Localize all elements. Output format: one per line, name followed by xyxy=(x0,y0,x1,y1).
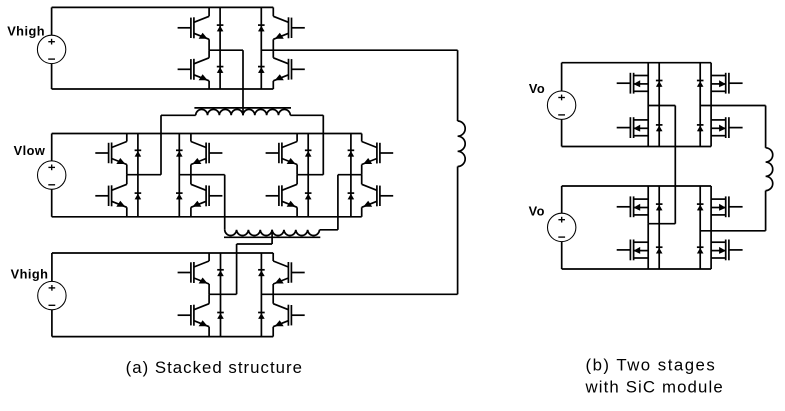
wire M6 leg lead xyxy=(647,224,649,269)
diode D19 xyxy=(697,81,704,87)
wire M1 drain lead xyxy=(647,63,649,106)
wire leg2 collector lead xyxy=(272,7,274,16)
diode D4 xyxy=(258,67,265,73)
diode D1 xyxy=(217,25,224,31)
wire leg4 collector lead xyxy=(190,134,192,142)
diode D3 xyxy=(258,25,265,31)
wire diode leg D1/D2 xyxy=(219,7,221,89)
wire T1 top right terminal xyxy=(290,115,323,174)
diode D6 xyxy=(135,193,142,199)
wire leg8 collector lead xyxy=(272,253,274,261)
wire diode leg D17/D18 xyxy=(658,63,660,147)
wire Q12 emitter to bottom rail xyxy=(361,207,363,217)
voltage source V2 Vlow xyxy=(38,161,66,189)
wire Q3 emitter to midpoint xyxy=(272,39,274,50)
wire Q1 emitter to midpoint xyxy=(208,39,210,50)
diode D9 xyxy=(305,150,312,156)
transformer T1 primary winding xyxy=(194,108,291,115)
transistor M4 xyxy=(711,117,743,138)
wire V5 bottom to bottom rail xyxy=(561,242,563,269)
wire cell2 midpoint C xyxy=(297,174,323,176)
diode D17 xyxy=(656,81,663,87)
wire inductor L1 bottom lead xyxy=(457,167,459,295)
transistor Q14 xyxy=(178,304,210,327)
wire Q2 emitter to bottom rail xyxy=(208,81,210,89)
wire leg3 collector lead xyxy=(126,134,128,142)
diode D11 xyxy=(348,150,355,156)
inductor L1 xyxy=(458,121,466,167)
transistor M6 xyxy=(617,240,649,261)
wire top rail cell4 xyxy=(562,62,712,64)
transistor Q5 xyxy=(95,142,127,165)
wire V4 top to top rail xyxy=(561,63,563,91)
diode D2 xyxy=(217,67,224,73)
wire cell2 midpoint B xyxy=(179,174,224,176)
wire bottom rail cell3 xyxy=(52,336,273,338)
wire diode leg D21/D22 xyxy=(658,186,660,269)
voltage source V5 Vo xyxy=(548,213,576,241)
svg-text:with SiC module: with SiC module xyxy=(585,377,724,396)
wire T1 bottom center tap xyxy=(237,230,273,294)
transistor M3 xyxy=(711,73,743,94)
transistor Q4 xyxy=(273,58,305,81)
wire Q16 emitter to bottom rail xyxy=(272,327,274,337)
svg-text:Vo: Vo xyxy=(529,203,545,218)
wire top rail cell2 xyxy=(52,133,362,135)
wire cell3 left midpoint xyxy=(209,293,237,295)
wire Q5 emitter to midpoint xyxy=(126,165,128,175)
wire V4 bottom to bottom rail xyxy=(561,119,563,146)
wire inductor L2 bottom lead xyxy=(765,191,767,231)
wire midpoint to Q10 collector xyxy=(296,175,298,185)
wire diode leg D5/D6 xyxy=(137,134,139,217)
wire transformer top center tap xyxy=(242,50,244,115)
wire leg1 collector lead xyxy=(208,7,210,16)
wire cell1 right midpoint to inductor xyxy=(261,49,457,51)
wire top rail cell1 xyxy=(52,6,274,8)
transistor Q12 xyxy=(362,184,394,207)
transistor M2 xyxy=(617,117,649,138)
transistor M8 xyxy=(711,240,743,261)
wire V2 top to top rail xyxy=(51,134,53,161)
wire Q11 emitter to midpoint xyxy=(361,165,363,175)
wire Q15 emitter to midpoint xyxy=(272,284,274,294)
wire M2 leg lead xyxy=(647,106,649,147)
voltage source V3 Vhigh xyxy=(38,281,66,309)
transistor Q15 xyxy=(273,261,305,284)
wire Q7 emitter to midpoint xyxy=(190,165,192,175)
diode D7 xyxy=(176,150,183,156)
wire midpoint to Q2 collector xyxy=(208,50,210,58)
wire M7 drain lead xyxy=(710,186,712,231)
svg-text:(b) Two stages: (b) Two stages xyxy=(586,355,717,374)
wire leg7 collector lead xyxy=(208,253,210,261)
wire cell5 right midpoint to inductor xyxy=(700,230,765,232)
wire Q13 emitter to midpoint xyxy=(208,284,210,294)
diode D24 xyxy=(697,247,704,253)
diode D18 xyxy=(656,125,663,131)
diode D22 xyxy=(656,247,663,253)
transformer T1 secondary winding xyxy=(224,230,320,238)
diode D23 xyxy=(697,204,704,210)
wire T1 top left terminal xyxy=(161,115,196,174)
transistor M5 xyxy=(617,196,649,217)
wire Q9 emitter to midpoint xyxy=(296,165,298,175)
transistor Q8 xyxy=(191,184,223,207)
diode D21 xyxy=(656,204,663,210)
voltage source V4 Vo xyxy=(547,91,575,119)
wire inductor L2 top lead xyxy=(765,106,767,148)
transistor Q6 xyxy=(95,184,127,207)
voltage source V1 Vhigh xyxy=(37,35,65,63)
wire diode leg D15/D16 xyxy=(260,253,262,337)
diode D10 xyxy=(305,193,312,199)
inductor L2 xyxy=(766,148,773,191)
wire midpoint to Q14 collector xyxy=(208,294,210,303)
wire Q14 emitter to bottom rail xyxy=(208,327,210,337)
wire bottom rail cell5 xyxy=(562,268,711,270)
wire midpoint to Q16 collector xyxy=(272,294,274,303)
wire M4 leg lead xyxy=(710,106,712,147)
wire M8 leg lead xyxy=(710,231,712,269)
wire diode leg D13/D14 xyxy=(220,253,222,337)
wire diode leg D3/D4 xyxy=(260,7,262,89)
diode D16 xyxy=(258,313,265,319)
wire V1 bottom to bottom rail xyxy=(51,64,53,89)
wire midpoint to Q6 collector xyxy=(126,175,128,185)
wire cell4 left midpoint xyxy=(648,105,675,107)
wire Q8 emitter to bottom rail xyxy=(190,207,192,217)
wire cell2 midpoint D xyxy=(338,174,362,176)
transistor Q10 xyxy=(266,184,298,207)
transistor Q2 xyxy=(178,58,210,81)
transistor Q16 xyxy=(273,304,305,327)
transistor Q13 xyxy=(178,261,210,284)
transistor Q1 xyxy=(178,16,210,39)
svg-text:Vhigh: Vhigh xyxy=(11,267,49,282)
wire V3 bottom to bottom rail xyxy=(51,310,53,337)
wire Q10 emitter to bottom rail xyxy=(296,207,298,217)
svg-text:Vhigh: Vhigh xyxy=(7,23,45,38)
svg-text:Vo: Vo xyxy=(529,81,545,96)
wire interstage link xyxy=(674,106,676,224)
diode D20 xyxy=(697,125,704,131)
wire top rail cell3 xyxy=(52,252,273,254)
wire V2 bottom to bottom rail xyxy=(51,189,53,217)
wire midpoint to Q4 collector xyxy=(272,50,274,58)
wire V1 top to top rail xyxy=(51,7,53,35)
transistor Q3 xyxy=(273,16,305,39)
wire midpoint to Q12 collector xyxy=(361,175,363,185)
wire diode leg D11/D12 xyxy=(350,134,352,217)
transistor M1 xyxy=(617,73,649,94)
wire Q4 emitter to bottom rail xyxy=(272,81,274,89)
wire diode leg D7/D8 xyxy=(178,134,180,217)
wire Q6 emitter to bottom rail xyxy=(126,207,128,217)
svg-text:(a) Stacked structure: (a) Stacked structure xyxy=(126,358,303,377)
diode D8 xyxy=(176,193,183,199)
wire top rail cell5 xyxy=(562,185,711,187)
wire T1 bottom right terminal xyxy=(320,229,338,231)
wire V5 top to top rail xyxy=(561,186,563,213)
wire cell2 midpoint A xyxy=(127,174,161,176)
wire bottom rail cell2 xyxy=(52,216,362,218)
transistor Q11 xyxy=(362,142,394,165)
wire M3 drain lead xyxy=(710,63,712,106)
transistor Q9 xyxy=(266,142,298,165)
diode D5 xyxy=(135,150,142,156)
wire V3 top to top rail xyxy=(51,253,53,281)
diode D13 xyxy=(217,270,224,276)
wire cell1 left midpoint xyxy=(209,49,243,51)
wire diode leg D23/D24 xyxy=(699,186,701,269)
svg-text:Vlow: Vlow xyxy=(14,143,46,158)
transistor Q7 xyxy=(191,142,223,165)
wire midpoint to Q8 collector xyxy=(190,175,192,185)
wire bottom rail cell4 xyxy=(562,146,712,148)
diode D15 xyxy=(258,270,265,276)
diode D14 xyxy=(217,313,224,319)
wire inductor L1 top lead xyxy=(457,50,459,121)
wire cell4 right midpoint to inductor xyxy=(700,105,765,107)
wire bottom rail cell1 xyxy=(52,88,274,90)
wire leg6 collector lead xyxy=(361,134,363,142)
wire diode leg D9/D10 xyxy=(307,134,309,217)
transistor M7 xyxy=(711,196,743,217)
wire leg5 collector lead xyxy=(296,134,298,142)
diode D12 xyxy=(348,193,355,199)
wire midpoint B down to T1 secondary xyxy=(224,175,226,230)
wire diode leg D19/D20 xyxy=(699,63,701,147)
wire M5 drain lead xyxy=(647,186,649,224)
wire cell5 left midpoint xyxy=(648,223,675,225)
wire midpoint D down to T1 secondary xyxy=(337,175,339,230)
wire cell3 right midpoint to inductor xyxy=(261,293,457,295)
